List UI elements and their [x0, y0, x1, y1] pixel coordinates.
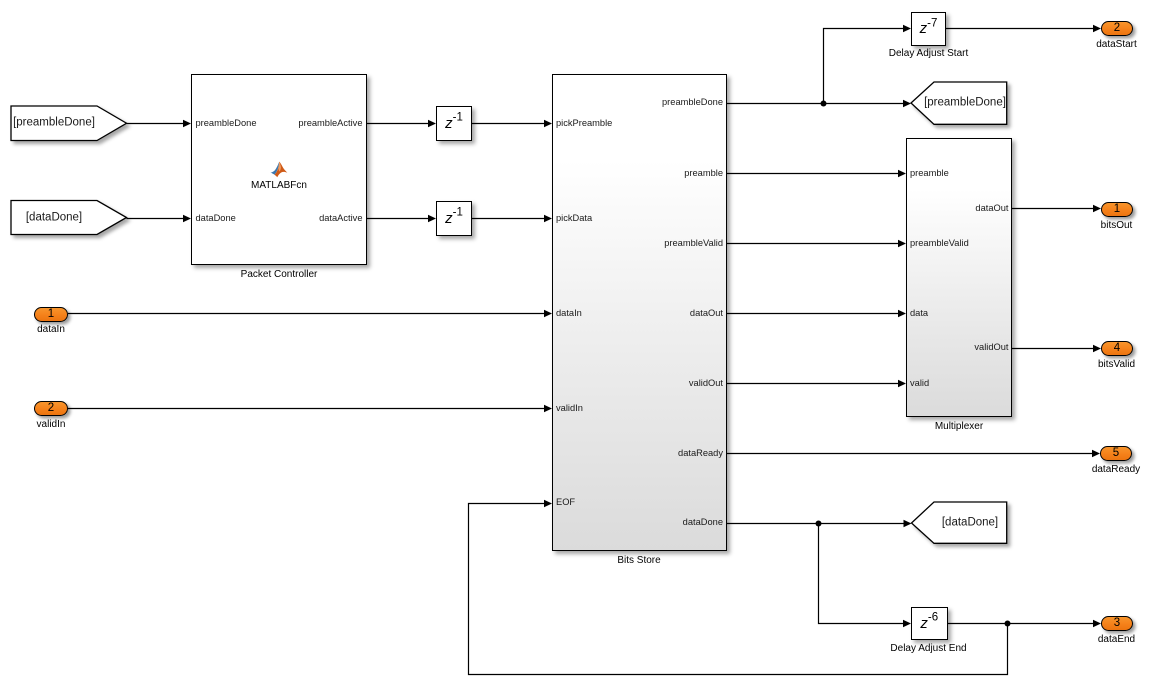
port name bitsValid: [1098, 359, 1135, 371]
arrowhead into Goto dataDone: [904, 520, 912, 528]
Goto tag [preambleDone]: [911, 82, 1007, 124]
port name dataEnd: [1098, 634, 1135, 646]
arrowhead into Outport 4: [1093, 345, 1101, 353]
pin label preambleValid (Multiplexer): [910, 237, 969, 249]
text MATLABFcn: [251, 180, 307, 192]
From tag text [dataDone]: [26, 211, 82, 224]
Delay Adjust Start block z-7: [911, 12, 946, 46]
pin label EOF (Bits Store): [556, 496, 575, 508]
pin label validOut (Bits Store): [689, 377, 723, 389]
port name validIn: [37, 419, 66, 431]
Outport 1 bitsOut: [1101, 202, 1133, 217]
pin label pickPreamble (Bits Store): [556, 117, 612, 129]
arrowhead into Outport 5: [1092, 450, 1100, 458]
arrowhead into Delay1: [428, 120, 436, 128]
port name dataStart: [1096, 39, 1137, 51]
wire preambleActive to Delay1: [367, 123, 429, 125]
wire dataDone to Goto and branch down to Delay Adjust End: [727, 523, 904, 525]
arrowhead into Delay Adjust End: [903, 620, 911, 628]
arrowhead into Delay2: [428, 215, 436, 223]
pin label preambleActive (Packet Controller): [298, 117, 362, 129]
block name Packet Controller: [241, 269, 318, 281]
wire validOut to Multiplexer: [727, 383, 899, 385]
pin label preambleValid out (Bits Store): [664, 237, 723, 249]
Outport 3 dataEnd: [1101, 616, 1133, 631]
wire junction preambleDone: [821, 101, 827, 107]
wire dataReady to Outport5: [727, 453, 1093, 455]
Goto tag [dataDone]: [912, 502, 1007, 543]
Inport 1 dataIn: [34, 307, 68, 322]
Outport 4 bitsValid: [1101, 341, 1133, 356]
arrowhead into Bits Store validIn: [544, 405, 552, 413]
wire dataOut to Multiplexer: [727, 313, 899, 315]
port name dataReady: [1092, 464, 1140, 476]
wire Delay Adjust End to Outport3 and feedback loop to EOF: [948, 623, 1095, 625]
arrowhead into Outport 1: [1093, 205, 1101, 213]
Multiplexer block: [906, 138, 1012, 417]
wire dataActive to Delay2: [367, 218, 429, 220]
Delay block z-1 (bottom): [436, 201, 472, 236]
arrowhead into Multiplexer preamble: [898, 170, 906, 178]
wire preambleValid to Multiplexer: [727, 243, 899, 245]
block name Bits Store: [617, 555, 660, 567]
wire Delay2 to pickData: [472, 218, 545, 220]
Bits Store block: [552, 74, 727, 551]
Outport 5 dataReady: [1100, 446, 1132, 461]
arrowhead into Outport 3: [1093, 620, 1101, 628]
wire Delay1 to pickPreamble: [472, 123, 545, 125]
pin label dataIn (Bits Store): [556, 307, 582, 319]
pin label dataOut (Multiplexer): [975, 202, 1008, 214]
arrowhead into Bits Store EOF: [544, 500, 552, 508]
pin label dataActive (Packet Controller): [319, 212, 362, 224]
From tag [dataDone]: [11, 201, 127, 235]
wire From[preambleDone] to Packet Controller: [127, 123, 185, 125]
wire junction dataEnd: [1005, 621, 1011, 627]
Goto tag text [preambleDone]: [924, 97, 1006, 110]
wire Multiplexer validOut to Outport4: [1012, 348, 1094, 350]
wire preambleDone to Goto and branch to Delay Adjust Start: [727, 103, 904, 105]
arrowhead into Packet Controller preambleDone: [183, 120, 191, 128]
wire preamble to Multiplexer: [727, 173, 899, 175]
pin label preambleDone (Packet Controller): [196, 117, 257, 129]
wire From[dataDone] to Packet Controller: [127, 218, 185, 220]
wire Inport2 validIn to Bits Store: [68, 408, 545, 410]
port name bitsOut: [1101, 220, 1133, 232]
arrowhead into Outport 2: [1093, 25, 1101, 33]
MATLAB logo icon: [270, 161, 288, 178]
pin label validOut (Multiplexer): [974, 341, 1008, 353]
pin label pickData (Bits Store): [556, 212, 592, 224]
From tag text [preambleDone]: [13, 117, 95, 130]
pin label dataReady (Bits Store): [678, 447, 723, 459]
Outport 2 dataStart: [1101, 21, 1133, 36]
pin label preamble out (Bits Store): [684, 167, 723, 179]
Packet Controller block: [191, 74, 367, 265]
arrowhead into Multiplexer data: [898, 310, 906, 318]
Goto tag text [dataDone]: [942, 516, 998, 529]
arrowhead into Multiplexer preambleValid: [898, 240, 906, 248]
port name dataIn: [37, 324, 65, 336]
arrowhead into Goto preambleDone: [903, 100, 911, 108]
pin label dataOut (Bits Store): [690, 307, 723, 319]
arrowhead into Bits Store dataIn: [544, 310, 552, 318]
arrowhead into Bits Store pickData: [544, 215, 552, 223]
pin label validIn (Bits Store): [556, 402, 583, 414]
pin label dataDone out (Bits Store): [683, 516, 723, 528]
wire Multiplexer dataOut to Outport1: [1012, 208, 1094, 210]
arrowhead into Delay Adjust Start: [903, 25, 911, 33]
Delay Adjust End block z-6: [911, 607, 948, 641]
arrowhead into Multiplexer valid: [898, 380, 906, 388]
From tag [preambleDone]: [11, 106, 127, 141]
Inport 2 validIn: [34, 401, 68, 416]
pin label preamble (Multiplexer): [910, 167, 949, 179]
block name Delay Adjust Start: [889, 48, 968, 60]
arrowhead into Packet Controller dataDone: [183, 215, 191, 223]
block name Delay Adjust End: [890, 643, 966, 655]
pin label dataDone (Packet Controller): [196, 212, 236, 224]
pin label preambleDone out (Bits Store): [662, 96, 723, 108]
wire Delay Adjust Start to Outport2: [946, 28, 1094, 30]
pin label valid (Multiplexer): [910, 377, 929, 389]
pin label data (Multiplexer): [910, 307, 928, 319]
arrowhead into Bits Store pickPreamble: [544, 120, 552, 128]
wire Inport1 dataIn to Bits Store: [68, 313, 545, 315]
block name Multiplexer: [935, 421, 983, 433]
wire junction dataDone: [816, 521, 822, 527]
Delay block z-1 (top): [436, 106, 472, 141]
